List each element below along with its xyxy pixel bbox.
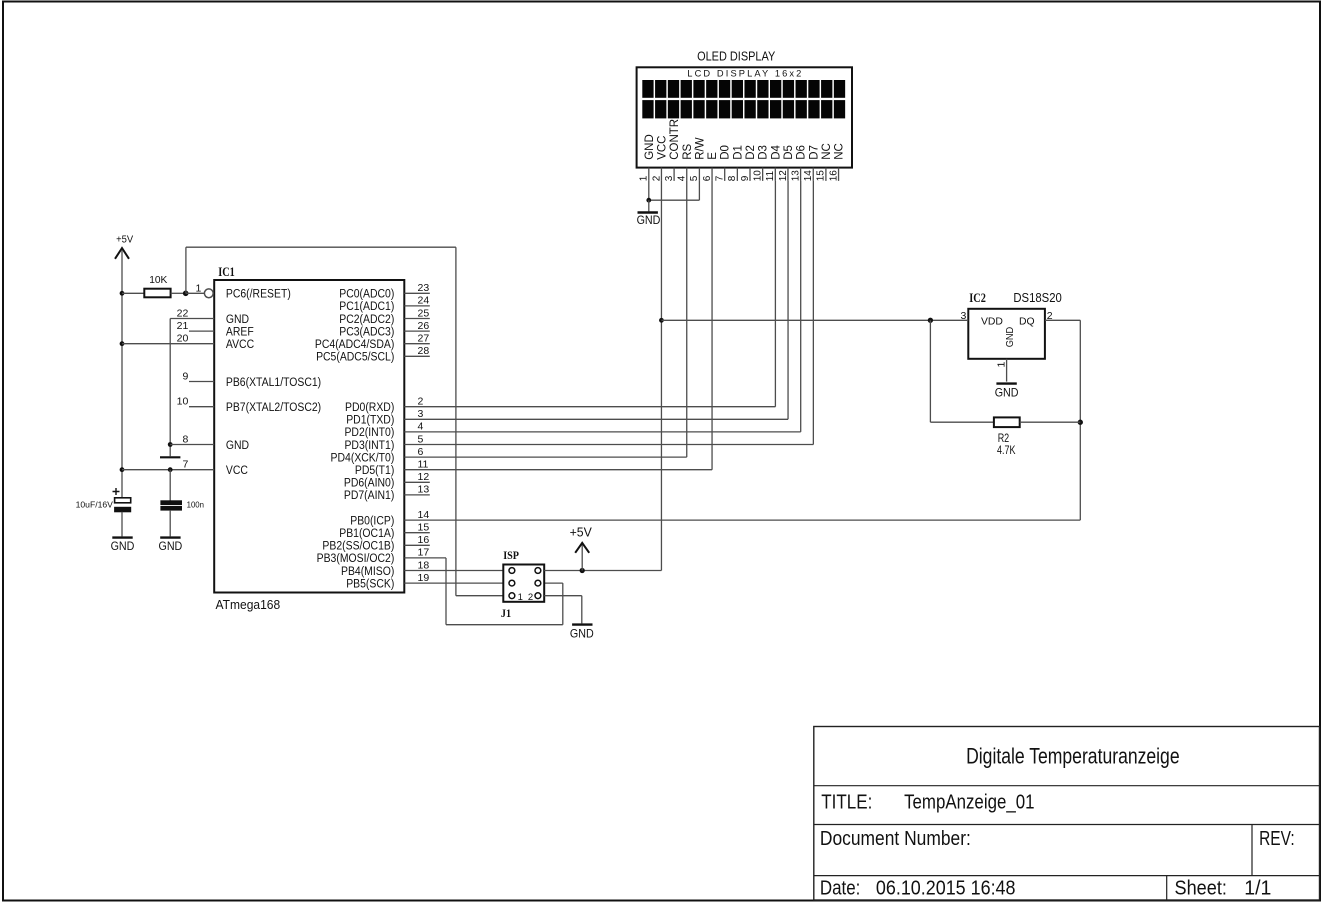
svg-text:+5V: +5V xyxy=(570,525,593,540)
svg-text:27: 27 xyxy=(418,333,430,345)
node ISP +5V tap xyxy=(580,568,585,573)
wire PD5 to display E xyxy=(404,469,712,471)
node RESET junction xyxy=(183,291,189,297)
title block divider row3/row4 xyxy=(814,875,1320,877)
wire MOSI vertical down xyxy=(445,558,447,625)
IC1 right pin names xyxy=(315,288,395,591)
wire junction to GND symbol xyxy=(648,200,650,211)
svg-text:R/W: R/W xyxy=(694,137,706,160)
wire IC2 GND pin down xyxy=(1006,359,1008,382)
resistor R2 body xyxy=(994,417,1020,427)
wire ISP pin6 GND right xyxy=(544,595,582,597)
ground C2 GND bar xyxy=(160,536,180,538)
svg-text:ATmega168: ATmega168 xyxy=(216,597,281,612)
svg-text:D5: D5 xyxy=(783,145,795,160)
wire RESET to ISP pin1 xyxy=(456,595,503,597)
node VCC column / sensor tap xyxy=(659,318,664,323)
wire +5V to R1 xyxy=(122,292,144,294)
svg-text:4: 4 xyxy=(677,175,688,181)
svg-text:Digitale Temperaturanzeige: Digitale Temperaturanzeige xyxy=(966,743,1180,768)
wire DQ vertical down xyxy=(1079,320,1081,520)
svg-text:PD4(XCK/T0): PD4(XCK/T0) xyxy=(331,452,395,465)
svg-text:DS18S20: DS18S20 xyxy=(1013,291,1061,305)
svg-text:13: 13 xyxy=(790,170,801,182)
IC1 left pin numbers xyxy=(177,282,202,470)
ground C1 GND bar xyxy=(112,536,132,538)
wire display pin1 to GND junction xyxy=(648,181,650,200)
wire IC2 DQ right xyxy=(1045,319,1080,321)
wire IC1 pin20 AVCC xyxy=(122,343,214,345)
svg-text:1: 1 xyxy=(195,282,201,294)
ground ISP GND bar xyxy=(572,623,592,625)
wire display pin6 E column xyxy=(711,181,713,470)
svg-text:PD2(INT0): PD2(INT0) xyxy=(344,427,394,440)
wire PB0 to DS18S20 DQ xyxy=(404,519,1080,521)
svg-text:GND: GND xyxy=(226,439,249,452)
svg-text:PC3(ADC3): PC3(ADC3) xyxy=(339,326,394,339)
svg-text:PB4(MISO): PB4(MISO) xyxy=(341,565,395,578)
node VCC/C2 xyxy=(168,467,173,472)
svg-text:PC6(/RESET): PC6(/RESET) xyxy=(226,288,291,301)
wire IC1 pin7 VCC xyxy=(122,469,214,471)
svg-text:E: E xyxy=(707,152,719,160)
svg-text:NC: NC xyxy=(821,143,833,160)
power +5V stem (ISP) xyxy=(581,545,583,571)
display pin stubs 1-16 xyxy=(649,168,839,181)
svg-text:24: 24 xyxy=(418,295,430,307)
node VDD/R2 junction xyxy=(928,318,933,323)
capacitor C1 bottom plate xyxy=(115,507,131,512)
wire display pin5 down xyxy=(698,181,700,200)
svg-text:3: 3 xyxy=(418,408,424,420)
svg-text:7: 7 xyxy=(715,175,726,181)
display DIS1 body xyxy=(637,67,852,167)
wire RESET node to IC1 pin1 xyxy=(186,292,205,294)
svg-text:16: 16 xyxy=(418,534,430,546)
svg-text:R2: R2 xyxy=(998,433,1010,445)
svg-text:23: 23 xyxy=(418,282,430,294)
wire display pin14 D7 column xyxy=(812,181,814,445)
node +5V/VCC xyxy=(120,467,125,472)
svg-text:6: 6 xyxy=(702,175,713,181)
wire PD4 to display RS xyxy=(404,456,686,458)
wire display pin11 D4 column xyxy=(774,181,776,407)
title block Sheet divider xyxy=(1166,876,1168,900)
svg-text:PD3(INT1): PD3(INT1) xyxy=(344,439,394,452)
capacitor C1 top plate xyxy=(115,498,131,503)
wire display pin4 RS column xyxy=(686,181,688,457)
node display GND junction xyxy=(646,198,651,203)
wire display pin13 D6 column xyxy=(800,181,802,432)
wire GND junction to pin5 column xyxy=(649,199,700,201)
svg-text:28: 28 xyxy=(418,345,430,357)
svg-text:GND: GND xyxy=(644,134,656,160)
svg-text:PC1(ADC1): PC1(ADC1) xyxy=(339,301,394,314)
IC1 right pin numbers xyxy=(418,282,430,584)
svg-text:VDD: VDD xyxy=(981,317,1003,328)
svg-text:25: 25 xyxy=(418,307,430,319)
svg-text:LCD DISPLAY 16x2: LCD DISPLAY 16x2 xyxy=(687,68,801,78)
svg-text:9: 9 xyxy=(740,175,751,181)
svg-text:2: 2 xyxy=(528,592,533,603)
connector J1 body xyxy=(503,565,544,602)
svg-text:18: 18 xyxy=(418,559,430,571)
svg-text:PD5(T1): PD5(T1) xyxy=(355,464,395,477)
svg-text:14: 14 xyxy=(803,170,814,182)
svg-text:2: 2 xyxy=(418,396,424,408)
svg-text:4: 4 xyxy=(418,421,424,433)
ground bar at IC1 pin8 net xyxy=(160,456,180,458)
wire PB5 SCK to ISP xyxy=(404,582,503,584)
svg-text:5: 5 xyxy=(689,175,700,181)
svg-text:PD1(TXD): PD1(TXD) xyxy=(346,414,394,427)
display pin name labels xyxy=(644,119,846,160)
svg-text:PD6(AIN0): PD6(AIN0) xyxy=(344,477,395,490)
capacitor C1 plus sign xyxy=(113,488,120,495)
svg-text:IC1: IC1 xyxy=(218,264,235,279)
IC1 unconnected left stubs (21,9,10) xyxy=(189,331,214,407)
wire RESET long vertical down xyxy=(455,247,457,596)
svg-text:Document Number:: Document Number: xyxy=(820,828,971,850)
svg-text:D2: D2 xyxy=(745,145,757,160)
svg-text:7: 7 xyxy=(182,459,188,471)
op IC1 ATmega168 body xyxy=(214,280,404,593)
svg-text:GND: GND xyxy=(111,539,135,553)
svg-text:26: 26 xyxy=(418,320,430,332)
svg-text:Date:: Date: xyxy=(820,878,861,900)
svg-text:AVCC: AVCC xyxy=(226,338,254,351)
svg-text:GND: GND xyxy=(995,385,1019,399)
capacitor C2 bottom plate xyxy=(161,506,182,510)
node DQ/R2 xyxy=(1078,420,1083,425)
wire GND vertical (pins 22/8) xyxy=(169,319,171,457)
svg-text:PB6(XTAL1/TOSC1): PB6(XTAL1/TOSC1) xyxy=(226,376,321,389)
wire display pin2 VCC column xyxy=(660,181,662,571)
wire +5V stem xyxy=(121,251,123,294)
svg-text:8: 8 xyxy=(727,175,738,181)
svg-text:15: 15 xyxy=(418,522,430,534)
svg-text:11: 11 xyxy=(418,459,429,471)
svg-text:GND: GND xyxy=(570,626,594,640)
svg-text:PB1(OC1A): PB1(OC1A) xyxy=(339,527,394,540)
resistor R1 body xyxy=(144,289,170,298)
svg-text:GND: GND xyxy=(159,539,183,553)
svg-text:15: 15 xyxy=(816,170,827,182)
svg-text:TITLE:: TITLE: xyxy=(821,791,872,813)
svg-text:GND: GND xyxy=(226,313,249,326)
wire ISP VCC to display VCC column xyxy=(544,570,661,572)
svg-text:1: 1 xyxy=(639,175,650,181)
ground IC2 GND bar xyxy=(996,382,1016,384)
node GND/pin8 xyxy=(168,442,173,447)
svg-text:PC2(ADC2): PC2(ADC2) xyxy=(339,313,394,326)
wire R2 left lead xyxy=(930,421,994,423)
svg-text:PD7(AIN1): PD7(AIN1) xyxy=(344,490,395,503)
svg-text:3: 3 xyxy=(664,175,675,181)
svg-text:IC2: IC2 xyxy=(969,290,986,305)
title block outline xyxy=(814,727,1320,901)
svg-text:PB7(XTAL2/TOSC2): PB7(XTAL2/TOSC2) xyxy=(226,401,321,414)
svg-text:Sheet:: Sheet: xyxy=(1175,878,1227,900)
svg-text:13: 13 xyxy=(418,484,430,496)
svg-text:DQ: DQ xyxy=(1019,317,1035,328)
svg-text:GND: GND xyxy=(1005,327,1016,348)
power +5V arrow (top left) xyxy=(115,248,129,259)
wire PB3 MOSI right xyxy=(404,557,446,559)
svg-text:9: 9 xyxy=(182,370,188,382)
connector J1 pin circles xyxy=(509,568,541,599)
svg-text:+5V: +5V xyxy=(116,234,133,245)
wire R1 to RESET node xyxy=(171,292,186,294)
svg-text:J1: J1 xyxy=(501,606,511,620)
wire RESET vertical up xyxy=(185,247,187,293)
svg-text:D4: D4 xyxy=(770,144,782,159)
wire IC1 pin22 GND xyxy=(170,318,214,320)
svg-text:19: 19 xyxy=(418,572,430,584)
svg-text:6: 6 xyxy=(418,446,424,458)
svg-text:D3: D3 xyxy=(758,145,770,160)
svg-text:PC0(ADC0): PC0(ADC0) xyxy=(339,288,394,301)
title block divider row1/row2 xyxy=(814,785,1320,787)
svg-text:VCC: VCC xyxy=(226,464,248,477)
svg-text:1: 1 xyxy=(518,592,523,603)
svg-text:06.10.2015 16:48: 06.10.2015 16:48 xyxy=(876,878,1016,900)
wire MOSI bottom horizontal xyxy=(446,624,563,626)
svg-text:PB3(MOSI/OC2): PB3(MOSI/OC2) xyxy=(317,553,395,566)
svg-text:TempAnzeige_01: TempAnzeige_01 xyxy=(904,791,1034,813)
node +5V/R1 xyxy=(120,291,125,296)
svg-text:21: 21 xyxy=(177,320,189,332)
svg-text:2: 2 xyxy=(651,175,662,181)
IC1 pin1 inversion bubble xyxy=(204,289,213,298)
svg-text:10uF/16V: 10uF/16V xyxy=(76,500,114,509)
wire PD1 to display D5 xyxy=(404,418,788,420)
svg-text:17: 17 xyxy=(418,547,430,559)
svg-text:22: 22 xyxy=(177,307,189,319)
wire MOSI up to ISP pin4 xyxy=(562,583,564,625)
svg-text:AREF: AREF xyxy=(226,326,254,339)
svg-text:D6: D6 xyxy=(796,145,808,160)
title block divider row2/row3 xyxy=(814,824,1320,826)
title block REV divider xyxy=(1251,825,1253,876)
svg-text:12: 12 xyxy=(418,471,430,483)
wire R2 right lead xyxy=(1020,421,1081,423)
capacitor C2 top plate xyxy=(161,501,182,505)
svg-text:RS: RS xyxy=(682,143,694,159)
node +5V/AVCC xyxy=(120,341,125,346)
svg-text:14: 14 xyxy=(418,509,430,521)
wire VDD branch down to R2 xyxy=(929,320,931,422)
svg-text:VCC: VCC xyxy=(656,136,668,160)
wire PD3 to display D7 xyxy=(404,444,813,446)
display pin numbers 1-16 xyxy=(639,170,840,182)
svg-text:ISP: ISP xyxy=(503,550,519,562)
IC1 left pin names xyxy=(226,288,321,477)
wire C1 to GND xyxy=(121,512,123,537)
svg-text:10: 10 xyxy=(752,170,763,182)
svg-text:1/1: 1/1 xyxy=(1244,878,1271,900)
svg-text:1: 1 xyxy=(996,362,1008,368)
wire PD0 to display D4 xyxy=(404,406,775,408)
svg-text:PB0(ICP): PB0(ICP) xyxy=(350,515,394,528)
sensor IC2 DS18S20 body xyxy=(968,309,1045,359)
svg-text:REV:: REV: xyxy=(1259,828,1295,850)
svg-text:4.7K: 4.7K xyxy=(997,445,1016,457)
display character cells xyxy=(642,80,845,118)
wire display pin12 D5 column xyxy=(787,181,789,419)
svg-text:20: 20 xyxy=(177,333,189,345)
svg-text:8: 8 xyxy=(182,433,188,445)
wire RESET top horizontal xyxy=(186,246,456,248)
svg-text:16: 16 xyxy=(828,170,839,182)
wire PD2 to display D6 xyxy=(404,431,800,433)
power +5V arrow (ISP) xyxy=(575,543,589,553)
wire +5V tap to IC2 VDD xyxy=(661,319,968,321)
svg-text:GND: GND xyxy=(637,213,661,227)
wire C2 to GND xyxy=(169,510,171,536)
svg-text:PC5(ADC5/SCL): PC5(ADC5/SCL) xyxy=(316,351,394,364)
svg-text:5: 5 xyxy=(418,433,424,445)
svg-text:12: 12 xyxy=(778,170,789,182)
svg-text:10K: 10K xyxy=(149,275,167,286)
ground display GND bar xyxy=(638,211,658,213)
wire VCC to C2 xyxy=(169,470,171,501)
wire +5V rail vertical xyxy=(121,293,123,498)
wire IC1 pin8 GND xyxy=(170,444,214,446)
IC1 unconnected right stubs xyxy=(404,293,430,545)
svg-text:PC4(ADC4/SDA): PC4(ADC4/SDA) xyxy=(315,338,395,351)
wire PB4 MISO to ISP xyxy=(404,570,503,572)
svg-text:PB2(SS/OC1B): PB2(SS/OC1B) xyxy=(322,540,394,553)
svg-text:11: 11 xyxy=(765,170,776,181)
svg-text:10: 10 xyxy=(177,396,189,408)
svg-text:NC: NC xyxy=(834,143,846,160)
svg-text:OLED DISPLAY: OLED DISPLAY xyxy=(697,50,776,64)
svg-text:D1: D1 xyxy=(732,145,744,160)
svg-text:PB5(SCK): PB5(SCK) xyxy=(346,578,394,591)
wire ISP GND down xyxy=(581,596,583,624)
svg-text:100n: 100n xyxy=(187,501,205,510)
svg-text:D0: D0 xyxy=(720,145,732,160)
svg-text:CONTR: CONTR xyxy=(669,119,681,160)
svg-text:PD0(RXD): PD0(RXD) xyxy=(345,401,394,414)
wire ISP pin4 stub xyxy=(544,582,563,584)
svg-text:D7: D7 xyxy=(808,145,820,160)
